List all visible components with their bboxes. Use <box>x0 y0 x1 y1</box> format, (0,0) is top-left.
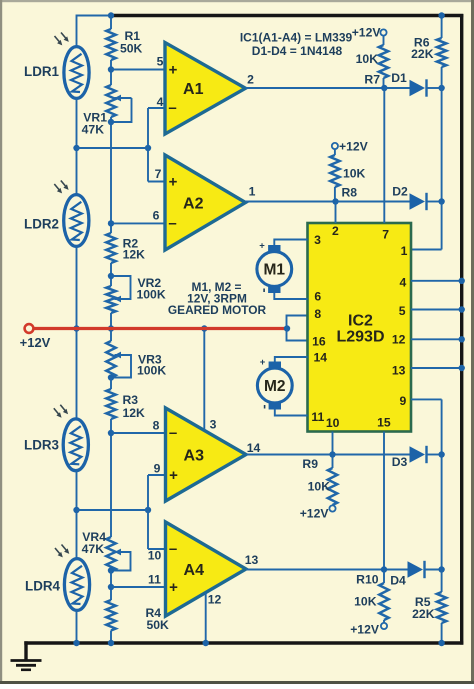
wire VR4 to R4 <box>110 571 112 601</box>
svg-text:7: 7 <box>155 167 162 181</box>
node VR1 bottom junction <box>108 119 114 125</box>
svg-text:M2: M2 <box>264 378 286 395</box>
+12V terminal <box>20 324 51 350</box>
wire top-left from LDR column to rail <box>77 16 112 47</box>
svg-text:LDR4: LDR4 <box>25 579 61 594</box>
svg-text:14: 14 <box>247 441 261 455</box>
svg-text:IC2: IC2 <box>348 313 373 330</box>
svg-text:LDR1: LDR1 <box>24 64 60 79</box>
resistor R2 <box>106 233 145 263</box>
svg-text:16: 16 <box>312 335 326 349</box>
svg-text:2: 2 <box>332 224 339 238</box>
svg-text:22K: 22K <box>411 47 434 61</box>
wire +12V red rail <box>34 327 287 330</box>
IC pin labels <box>311 224 407 430</box>
svg-text:12K: 12K <box>123 248 146 262</box>
svg-text:D1: D1 <box>391 71 407 85</box>
wire A2 output <box>246 201 336 203</box>
LDR3 <box>24 405 88 471</box>
node LDR3-LDR4 junction <box>73 507 79 513</box>
svg-text:R8: R8 <box>342 186 358 200</box>
svg-text:2: 2 <box>247 73 254 87</box>
svg-text:D3: D3 <box>392 455 408 469</box>
svg-text:10: 10 <box>326 416 340 430</box>
label D1 <box>391 71 407 85</box>
wire R3 to VR4 <box>110 419 112 537</box>
resistor R8 10K <box>330 149 365 201</box>
wire R4 to ground rail <box>110 631 112 644</box>
wire IC pin15 <box>383 432 385 570</box>
resistor R3 <box>106 389 145 420</box>
svg-text:1: 1 <box>401 244 408 258</box>
motor M1 <box>257 241 292 294</box>
svg-text:+: + <box>169 62 178 79</box>
node pin3 red rail junction <box>201 325 207 331</box>
wire IC pins 8/16 bracket <box>287 316 308 341</box>
svg-text:10K: 10K <box>356 52 379 66</box>
svg-text:+: + <box>169 579 178 596</box>
svg-text:10K: 10K <box>308 480 331 494</box>
svg-text:10: 10 <box>148 549 162 563</box>
svg-text:LDR2: LDR2 <box>24 217 59 232</box>
wire R1 to VR1 <box>110 60 112 85</box>
wire pin11 tap to A4 <box>111 586 167 588</box>
wire LDR3 to LDR4 <box>76 471 78 559</box>
wire LDR2 to LDR3 <box>76 246 78 419</box>
svg-text:47K: 47K <box>82 123 105 137</box>
label D3 <box>392 455 408 469</box>
resistor R5 22K <box>412 570 446 644</box>
svg-text:9: 9 <box>154 462 161 476</box>
wire LM339 pin3 supply <box>204 329 216 432</box>
node R1-VR1 junction (pin5 tap) <box>108 66 114 72</box>
svg-text:L293D: L293D <box>336 329 384 346</box>
svg-text:13: 13 <box>392 364 406 378</box>
node LDR column +12V crossing <box>73 325 79 331</box>
svg-text:8: 8 <box>153 419 160 433</box>
node pin12 rail <box>459 336 465 342</box>
resistor R7 10K <box>356 36 389 88</box>
op-amp A4 <box>148 522 259 616</box>
svg-text:22K: 22K <box>412 607 435 621</box>
wire IC pin10 <box>332 432 334 455</box>
+12V terminal R8 <box>332 140 369 154</box>
wire IC pin12 ground <box>411 338 462 340</box>
node D1 cathode <box>438 85 444 91</box>
node pin12 ground junction <box>203 640 209 646</box>
svg-text:+: + <box>260 357 266 368</box>
svg-text:R10: R10 <box>356 573 379 587</box>
svg-text:12: 12 <box>208 593 222 607</box>
svg-text:R9: R9 <box>302 457 318 471</box>
svg-text:IC1(A1-A4) = LM339: IC1(A1-A4) = LM339 <box>240 31 353 45</box>
+12V terminal R7 <box>352 26 387 40</box>
wire LDR1 to LDR2 <box>76 98 78 194</box>
+12V top supply rail (black) <box>111 14 463 645</box>
svg-text:7: 7 <box>382 228 389 242</box>
svg-text:11: 11 <box>311 410 324 424</box>
svg-text:15: 15 <box>377 416 391 430</box>
wire M2 to IC pins 14/11 <box>275 357 308 416</box>
wire D3-D4 link <box>441 455 443 570</box>
LDR4 <box>25 545 90 611</box>
node R5 ground junction <box>438 640 444 646</box>
svg-text:+: + <box>259 241 265 252</box>
label IC1 header <box>240 31 353 59</box>
svg-text:6: 6 <box>153 209 160 223</box>
diode D1 <box>384 79 441 96</box>
svg-text:A4: A4 <box>184 562 205 579</box>
node R6 top rail junction <box>438 12 444 18</box>
wire A4 output <box>246 569 408 571</box>
svg-text:50K: 50K <box>120 42 143 56</box>
op-amp A2 <box>153 155 256 250</box>
node pin4 rail <box>459 278 465 284</box>
svg-text:R7: R7 <box>364 73 380 87</box>
node VR4 bottom junction <box>108 567 114 573</box>
node R7/D1 junction <box>381 85 387 91</box>
svg-text:5: 5 <box>399 304 406 318</box>
svg-text:+12V: +12V <box>339 140 369 154</box>
op-amp A3 <box>153 408 261 501</box>
svg-text:D1-D4 = 1N4148: D1-D4 = 1N4148 <box>252 44 343 58</box>
svg-text:14: 14 <box>314 351 328 365</box>
label D4 <box>390 574 406 588</box>
wire IC pin7 <box>383 88 385 223</box>
svg-text:3: 3 <box>314 233 321 247</box>
node pin11 tap <box>108 584 114 590</box>
wire divider to A3/A4 inputs <box>77 475 169 549</box>
wire R2 to VR2 <box>110 263 112 286</box>
node pin5 rail <box>459 306 465 312</box>
svg-text:–: – <box>168 100 176 117</box>
wire pin6 tap to A2 <box>111 222 168 224</box>
wire A3 output <box>246 454 410 456</box>
svg-text:100K: 100K <box>137 364 166 378</box>
svg-text:A2: A2 <box>183 195 204 212</box>
node R4 ground junction <box>108 640 114 646</box>
+12V terminal R10 <box>350 623 387 637</box>
wire IC pin9 <box>411 399 442 454</box>
svg-text:1: 1 <box>249 185 256 199</box>
label motor note <box>168 280 267 317</box>
svg-text:11: 11 <box>148 573 161 587</box>
svg-text:+12V: +12V <box>352 26 382 40</box>
svg-text:A1: A1 <box>183 81 204 98</box>
svg-text:–: – <box>168 215 176 232</box>
svg-text:3: 3 <box>210 418 217 432</box>
svg-text:+: + <box>169 174 178 191</box>
wire pin5 tap to A1 <box>111 69 168 71</box>
resistor R9 10K <box>302 455 337 506</box>
svg-text:6: 6 <box>314 290 321 304</box>
node pin8 tap <box>108 430 114 436</box>
node R10/pin15 junction <box>381 566 387 572</box>
wire D2 to IC pin1 <box>411 202 442 250</box>
wire IC pin4 ground <box>411 280 462 282</box>
node LDR4 ground junction <box>73 640 79 646</box>
resistor R1 <box>106 29 142 60</box>
svg-text:+12V: +12V <box>300 507 330 521</box>
svg-text:12K: 12K <box>123 406 146 420</box>
svg-text:50K: 50K <box>147 618 170 632</box>
node pin13 rail <box>459 365 465 371</box>
svg-text:100K: 100K <box>137 288 166 302</box>
svg-text:R3: R3 <box>123 393 139 407</box>
svg-text:13: 13 <box>245 553 259 567</box>
potentiometer VR4 47K <box>82 530 131 571</box>
svg-text:10K: 10K <box>354 595 377 609</box>
LDR1 <box>24 33 89 99</box>
potentiometer VR2 100K <box>106 276 166 313</box>
wire divider to A1/A2 inputs <box>77 108 168 182</box>
svg-text:47K: 47K <box>82 542 105 556</box>
svg-text:LDR3: LDR3 <box>24 438 59 453</box>
op-amp A1 <box>157 43 255 135</box>
resistor R4 <box>106 600 169 632</box>
wire VR3 to R3 <box>110 378 112 390</box>
wire VR2 to red rail <box>110 313 112 329</box>
node D4 cathode <box>438 566 444 572</box>
svg-text:–: – <box>169 425 177 442</box>
LDR2 <box>24 181 89 247</box>
resistor R6 22K <box>411 16 446 89</box>
node D2 cathode <box>438 198 444 204</box>
svg-text:8: 8 <box>314 307 321 321</box>
node R9/pin10 junction <box>329 451 335 457</box>
ground symbol <box>11 661 42 670</box>
node pin6 tap <box>108 220 114 226</box>
wire D1-D2 link <box>441 88 443 202</box>
svg-text:GEARED MOTOR: GEARED MOTOR <box>168 303 267 317</box>
node D3 cathode <box>438 451 444 457</box>
svg-text:D2: D2 <box>392 185 408 199</box>
potentiometer VR1 47K <box>82 85 132 137</box>
svg-text:+: + <box>169 467 178 484</box>
node top rail junction <box>108 12 114 18</box>
ground bottom rail (black) <box>24 641 463 659</box>
potentiometer VR3 100K <box>106 341 166 378</box>
wire IC pin13 ground <box>411 367 462 369</box>
wire rail to R1 <box>110 16 112 30</box>
node LDR1 divider link <box>145 145 151 151</box>
svg-text:D4: D4 <box>390 574 406 588</box>
diode D2 <box>336 193 442 210</box>
node resistor column +12V crossing <box>108 325 114 331</box>
+12V terminal R9 <box>300 505 336 520</box>
svg-text:9: 9 <box>400 394 407 408</box>
svg-text:4: 4 <box>157 95 164 109</box>
wire LDR4 to ground rail <box>76 610 78 643</box>
svg-text:A3: A3 <box>184 447 205 464</box>
wire M1 to IC pins 3/6 <box>274 240 307 300</box>
svg-text:+12V: +12V <box>350 623 380 637</box>
diode D4 <box>408 561 442 578</box>
wire VR1 to R2 <box>110 117 112 233</box>
IC U2 L293D body <box>308 223 412 432</box>
svg-text:10K: 10K <box>343 167 366 181</box>
wire A1 output <box>246 87 385 89</box>
label D2 <box>392 185 408 199</box>
svg-text:M1: M1 <box>264 261 286 278</box>
resistor R10 10K <box>354 570 389 623</box>
svg-text:+12V: +12V <box>20 335 51 350</box>
node LDR3 divider link <box>145 507 151 513</box>
svg-text:–: – <box>169 541 177 558</box>
motor M2 <box>257 357 292 410</box>
svg-text:5: 5 <box>157 55 164 69</box>
node R8/pin2 junction <box>332 198 338 204</box>
node red rail to IC bracket <box>284 325 290 331</box>
wire LM339 pin12 ground <box>206 593 222 644</box>
svg-text:4: 4 <box>400 276 407 290</box>
node R2-VR2 junction <box>108 273 114 279</box>
wire IC pin5 ground <box>411 309 462 311</box>
wire IC pin2 <box>335 202 337 224</box>
wire pin8 tap to A3 <box>111 432 168 434</box>
diode D3 <box>410 446 442 463</box>
node VR3 bottom junction <box>108 374 114 380</box>
svg-text:12: 12 <box>392 333 406 347</box>
node LDR1-LDR2 junction <box>73 145 79 151</box>
wire red rail to VR3 <box>110 329 112 342</box>
